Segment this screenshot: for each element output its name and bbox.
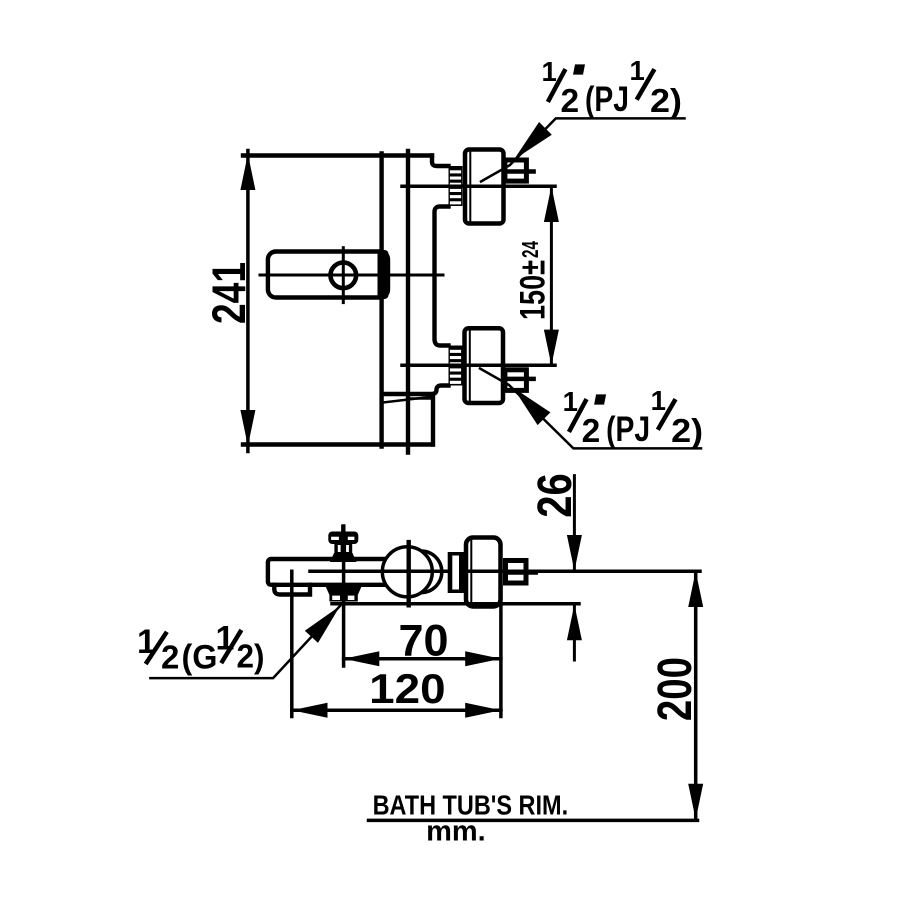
svg-text:2: 2 — [582, 413, 601, 450]
arrow 241 top — [240, 154, 255, 190]
bottom bracket — [383, 386, 449, 395]
ext line 120 left — [290, 571, 294, 716]
dim 120 line — [292, 709, 501, 713]
svg-text:1: 1 — [651, 385, 666, 416]
body top edge — [243, 153, 432, 157]
break line thin — [409, 397, 434, 400]
top right bracket — [432, 156, 449, 167]
svg-text:(PJ: (PJ — [606, 410, 650, 449]
dim 26 line — [573, 476, 576, 660]
handle outline — [268, 252, 388, 298]
lower union flange line — [470, 540, 472, 604]
svg-text:120: 120 — [369, 665, 445, 712]
svg-text:(G: (G — [182, 638, 218, 676]
arrow 120 right — [465, 703, 501, 718]
svg-text:150±: 150± — [513, 260, 552, 320]
svg-text:2): 2) — [650, 83, 682, 120]
knob centerline — [342, 526, 346, 666]
dim 70 line — [344, 657, 501, 661]
break slant — [383, 397, 434, 403]
lower union — [466, 538, 501, 607]
svg-text:24: 24 — [517, 241, 543, 258]
arrow 70 right — [465, 651, 501, 666]
inch mark mid PJ — [594, 394, 606, 404]
arrow 150 bottom — [544, 330, 559, 366]
svg-text:1: 1 — [563, 386, 578, 417]
dim 150 line — [550, 186, 553, 365]
svg-text:2): 2) — [671, 413, 703, 450]
bottom nut mid line — [505, 377, 534, 382]
arrow 70 left — [344, 651, 380, 666]
svg-text:2: 2 — [561, 83, 580, 120]
svg-text:2: 2 — [161, 638, 179, 675]
top union — [465, 150, 504, 224]
mid bracket — [435, 207, 449, 346]
handle circle — [331, 263, 357, 289]
arrow 26 lower — [567, 605, 582, 641]
inch mark top PJ — [573, 64, 585, 74]
bath tub rim line — [369, 819, 698, 823]
lower nut mid line — [506, 570, 536, 575]
svg-text:200: 200 — [649, 657, 702, 721]
arrow 200 bottom — [688, 784, 703, 820]
top nut — [505, 160, 527, 181]
bottom union flange line — [469, 331, 471, 400]
body front vertical line — [379, 154, 383, 447]
dim 241 line — [246, 151, 250, 452]
valve stem line — [407, 542, 411, 605]
leader arrowhead G — [305, 606, 340, 643]
lower centerline — [310, 570, 700, 574]
leader arrowhead top PJ — [514, 122, 552, 160]
dim 200 line — [694, 571, 698, 819]
arrow 150 top — [544, 186, 559, 222]
diverter knob stem — [341, 527, 345, 532]
valve bonnet circle — [400, 551, 442, 593]
bottom nut — [505, 370, 527, 391]
svg-text:1: 1 — [542, 56, 557, 87]
lower thread — [448, 552, 464, 593]
mounting baseline — [332, 602, 579, 606]
svg-text:1: 1 — [137, 623, 156, 661]
leader line G — [150, 606, 340, 678]
svg-text:70: 70 — [399, 616, 449, 665]
leader line mid PJ — [480, 369, 701, 449]
slash marks G label — [147, 634, 166, 662]
ext line 70-120 right — [499, 586, 503, 717]
wall line — [406, 151, 410, 453]
bottom union — [465, 328, 504, 403]
body bottom edge — [243, 442, 433, 446]
svg-text:26: 26 — [528, 473, 582, 518]
svg-text:2): 2) — [237, 637, 265, 674]
valve body circle — [382, 547, 432, 597]
arrow 200 top — [688, 571, 703, 607]
diverter packing band — [325, 585, 362, 595]
svg-text:(PJ: (PJ — [585, 80, 629, 119]
diverter knob base flare — [330, 553, 357, 562]
handle v centerline — [342, 248, 345, 303]
slash marks top PJ label — [549, 71, 565, 100]
diverter lock nut — [329, 595, 357, 602]
arrow 26 upper — [567, 535, 582, 571]
svg-text:1: 1 — [216, 620, 235, 658]
lower nut — [506, 561, 527, 584]
top inlet thread — [449, 166, 463, 206]
bottom box right edge — [431, 397, 435, 445]
bottom inlet thread — [449, 346, 463, 386]
bottom inlet centerline — [402, 364, 555, 368]
diverter knob neck — [334, 544, 352, 554]
diverter knob cap — [328, 532, 358, 545]
svg-text:mm.: mm. — [426, 816, 486, 848]
leader line top PJ — [481, 118, 685, 181]
handle right cap — [378, 250, 389, 299]
top nut mid line — [505, 169, 534, 174]
leader arrowhead mid PJ — [513, 388, 550, 426]
spout aerator step — [274, 585, 310, 595]
slash marks mid PJ label — [570, 401, 586, 430]
svg-text:1: 1 — [630, 55, 645, 86]
arrow 241 bottom — [240, 410, 255, 446]
handle h centerline — [260, 274, 443, 277]
spout bar — [268, 559, 438, 585]
svg-text:241: 241 — [202, 262, 255, 324]
top union flange line — [469, 152, 471, 221]
top inlet centerline — [402, 185, 555, 189]
arrow 120 left — [292, 703, 328, 718]
